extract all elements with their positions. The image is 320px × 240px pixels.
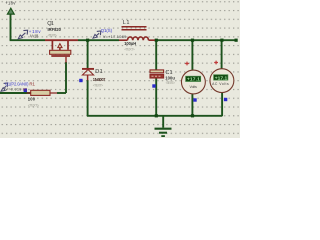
- svg-text:<TEXT>: <TEXT>: [166, 81, 175, 85]
- svg-text:D1: D1: [95, 69, 103, 75]
- svg-text:100u: 100u: [165, 75, 175, 80]
- svg-text:<TEXT>: <TEXT>: [124, 47, 135, 51]
- svg-text:100: 100: [28, 96, 36, 101]
- svg-text:Volts: Volts: [190, 85, 198, 89]
- svg-text:L1: L1: [123, 20, 130, 26]
- svg-text:V=0.019: V=0.019: [5, 86, 21, 91]
- svg-text:82: 82: [23, 87, 27, 92]
- svg-text:100uH: 100uH: [124, 41, 136, 46]
- svg-text:IRF820: IRF820: [48, 27, 62, 32]
- svg-text:V=+17.1089: V=+17.1089: [103, 34, 127, 39]
- svg-text:<TEXT>: <TEXT>: [28, 104, 39, 108]
- svg-text:R1: R1: [29, 82, 35, 87]
- svg-text:AC Volts: AC Volts: [212, 82, 229, 86]
- svg-text:V=18: V=18: [30, 33, 39, 38]
- svg-text:Q1(S): Q1(S): [101, 28, 113, 33]
- svg-text:+18v: +18v: [5, 1, 16, 6]
- svg-text:<TEXT>: <TEXT>: [93, 83, 103, 87]
- svg-text:1N4007: 1N4007: [93, 77, 106, 82]
- svg-text:<TEXT>: <TEXT>: [48, 34, 57, 38]
- svg-text:+17.1: +17.1: [215, 75, 228, 81]
- svg-text:+17.1: +17.1: [187, 77, 200, 83]
